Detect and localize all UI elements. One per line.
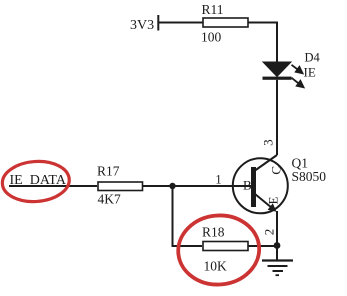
svg-text:R17: R17 [97, 164, 120, 179]
transistor Q1 collector stroke [255, 155, 277, 171]
svg-text:S8050: S8050 [292, 169, 327, 184]
svg-text:E: E [265, 196, 280, 204]
junction node emitter [274, 242, 281, 249]
transistor Q1 emitter arrowhead [268, 203, 277, 212]
LED emission arrow 2 [292, 78, 304, 87]
wire junction down to R18 [173, 186, 203, 246]
resistor R18 body [203, 242, 248, 251]
svg-text:2: 2 [261, 229, 276, 236]
svg-text:100: 100 [201, 30, 222, 45]
transistor Q1 emitter stroke [255, 194, 272, 208]
annotation red ellipse around IE DATA [1, 159, 71, 204]
ground stub [276, 246, 278, 261]
wire IE DATA to R17 [9, 185, 97, 187]
wire R17 to base [142, 185, 251, 187]
wire 3V3 to R11 [158, 22, 203, 24]
wire emitter down [276, 211, 278, 246]
svg-text:3: 3 [260, 139, 275, 146]
ground bar 3 [273, 270, 284, 272]
svg-text:R18: R18 [202, 225, 225, 240]
ground bar 1 [262, 259, 293, 261]
svg-text:4K7: 4K7 [98, 192, 121, 207]
power port 3V3 bar [157, 15, 159, 31]
ground bar 2 [268, 265, 288, 267]
svg-text:3V3: 3V3 [130, 18, 154, 33]
resistor R11 body [203, 18, 248, 27]
junction node base [169, 183, 175, 189]
annotation red ellipse around R18 [175, 212, 262, 288]
transistor Q1 base bar [251, 167, 256, 207]
LED D4 cathode bar [263, 77, 292, 80]
svg-text:C: C [269, 166, 284, 175]
svg-text:1: 1 [215, 172, 221, 186]
svg-text:D4: D4 [305, 51, 321, 65]
svg-text:IE: IE [304, 65, 316, 80]
LED D4 anode triangle [263, 62, 291, 77]
wire LED to Q1 collector [276, 80, 278, 155]
svg-text:R11: R11 [202, 2, 224, 17]
ground bar 4 [276, 274, 280, 276]
wire R18 to emitter node [248, 245, 277, 247]
svg-text:10K: 10K [204, 259, 228, 274]
wire R11 to corner [248, 23, 277, 63]
transistor Q1 circle [233, 158, 288, 213]
LED emission arrow 1 [292, 65, 303, 73]
resistor R17 body [98, 182, 143, 191]
